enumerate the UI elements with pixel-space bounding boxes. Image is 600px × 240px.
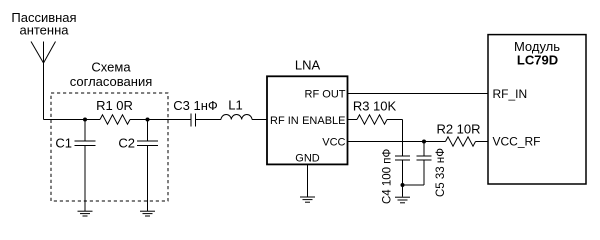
svg-text:согласования: согласования [70,74,153,89]
svg-text:C1: C1 [55,136,72,151]
svg-text:RF OUT: RF OUT [305,89,346,101]
svg-text:C2: C2 [118,136,135,151]
svg-text:Схема: Схема [91,60,131,75]
svg-text:антенна: антенна [19,22,69,37]
svg-text:C4 100 пФ: C4 100 пФ [382,148,394,204]
svg-text:RF IN: RF IN [270,115,299,127]
svg-text:R2 10R: R2 10R [436,122,480,137]
svg-text:RF_IN: RF_IN [493,87,528,101]
svg-text:L1: L1 [228,98,242,113]
svg-text:LC79D: LC79D [517,53,558,68]
svg-text:C3 1нФ: C3 1нФ [173,98,218,113]
svg-text:R3 10K: R3 10K [353,99,397,114]
svg-text:GND: GND [295,153,320,165]
svg-text:LNA: LNA [295,58,321,73]
svg-text:VCC_RF: VCC_RF [493,135,541,149]
svg-text:R1 0R: R1 0R [96,98,133,113]
svg-text:VCC: VCC [322,137,345,149]
svg-text:ENABLE: ENABLE [302,115,345,127]
svg-text:C5 33 нФ: C5 33 нФ [435,148,447,197]
